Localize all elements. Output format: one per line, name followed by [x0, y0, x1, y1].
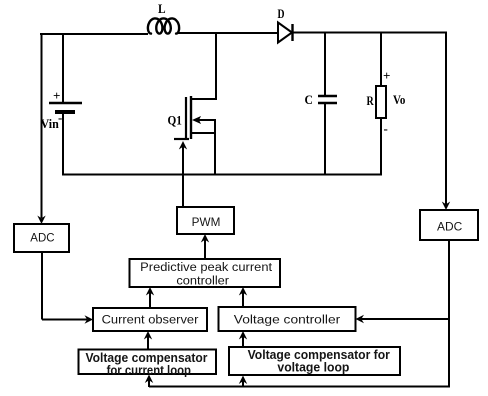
svg-text:ADC: ADC: [437, 222, 462, 234]
wire left ADC to current observer: [42, 252, 93, 324]
arrow into left ADC: [37, 216, 45, 225]
diode D: [278, 6, 293, 43]
arrow compensator to current observer: [144, 331, 152, 350]
resistor R: [367, 32, 387, 175]
arrow current observer to predictive: [146, 287, 154, 308]
svg-text:ADC: ADC: [30, 233, 54, 245]
wire top rail left segment: [40, 33, 148, 35]
svg-text:Predictive peak current: Predictive peak current: [140, 262, 273, 274]
svg-text:Current observer: Current observer: [102, 315, 199, 327]
arrow bottom to current-loop compensator: [145, 375, 153, 388]
arrow to voltage controller from right: [356, 315, 450, 323]
Current observer box: [93, 308, 207, 331]
arrow into right ADC: [442, 202, 450, 211]
svg-text:C: C: [305, 92, 313, 107]
arrow voltage controller to predictive: [239, 287, 247, 307]
transistor Q1: [168, 32, 218, 175]
wire bottom rail: [62, 174, 382, 176]
Voltage controller box: [219, 307, 356, 331]
svg-text:Voltage controller: Voltage controller: [234, 315, 341, 327]
wire top rail middle segment: [178, 32, 279, 34]
svg-text:+: +: [53, 88, 60, 103]
svg-text:D: D: [278, 6, 285, 21]
wire left vertical: [41, 33, 43, 218]
svg-text:voltage loop: voltage loop: [277, 360, 349, 374]
Voltage compensator for current loop box: [79, 350, 217, 378]
svg-text:Vo: Vo: [393, 92, 405, 107]
svg-text:L: L: [158, 1, 166, 16]
svg-text:PWM: PWM: [192, 217, 221, 229]
ADC left box: [14, 224, 69, 252]
wire top rail right segment: [292, 32, 447, 34]
arrow predictive to PWM: [201, 234, 209, 259]
node Vo labels: [383, 68, 405, 136]
capacitor C: [305, 32, 338, 175]
wire battery to bottom rail: [62, 112, 64, 176]
wire battery branch top: [62, 33, 64, 102]
ADC right box: [420, 210, 478, 240]
svg-text:controller: controller: [176, 276, 229, 288]
svg-text:Q1: Q1: [168, 113, 182, 128]
inductor L: [148, 1, 179, 34]
battery Vin: [41, 88, 83, 131]
arrow bottom to voltage-loop compensator: [239, 376, 247, 388]
wire right ADC down: [448, 240, 450, 387]
svg-text:Vin: Vin: [41, 116, 60, 131]
Voltage compensator for voltage loop box: [229, 347, 400, 375]
svg-text:-: -: [58, 110, 62, 125]
svg-text:-: -: [384, 121, 388, 136]
wire PWM to gate with arrow: [179, 141, 187, 207]
wire right vertical from rail: [445, 32, 447, 208]
svg-text:+: +: [383, 68, 390, 83]
PWM box: [177, 207, 234, 234]
Predictive peak current controller box: [130, 259, 281, 288]
arrow compensator to voltage controller: [239, 331, 247, 347]
svg-text:R: R: [367, 93, 375, 108]
wire bottom feedback line: [149, 386, 450, 388]
